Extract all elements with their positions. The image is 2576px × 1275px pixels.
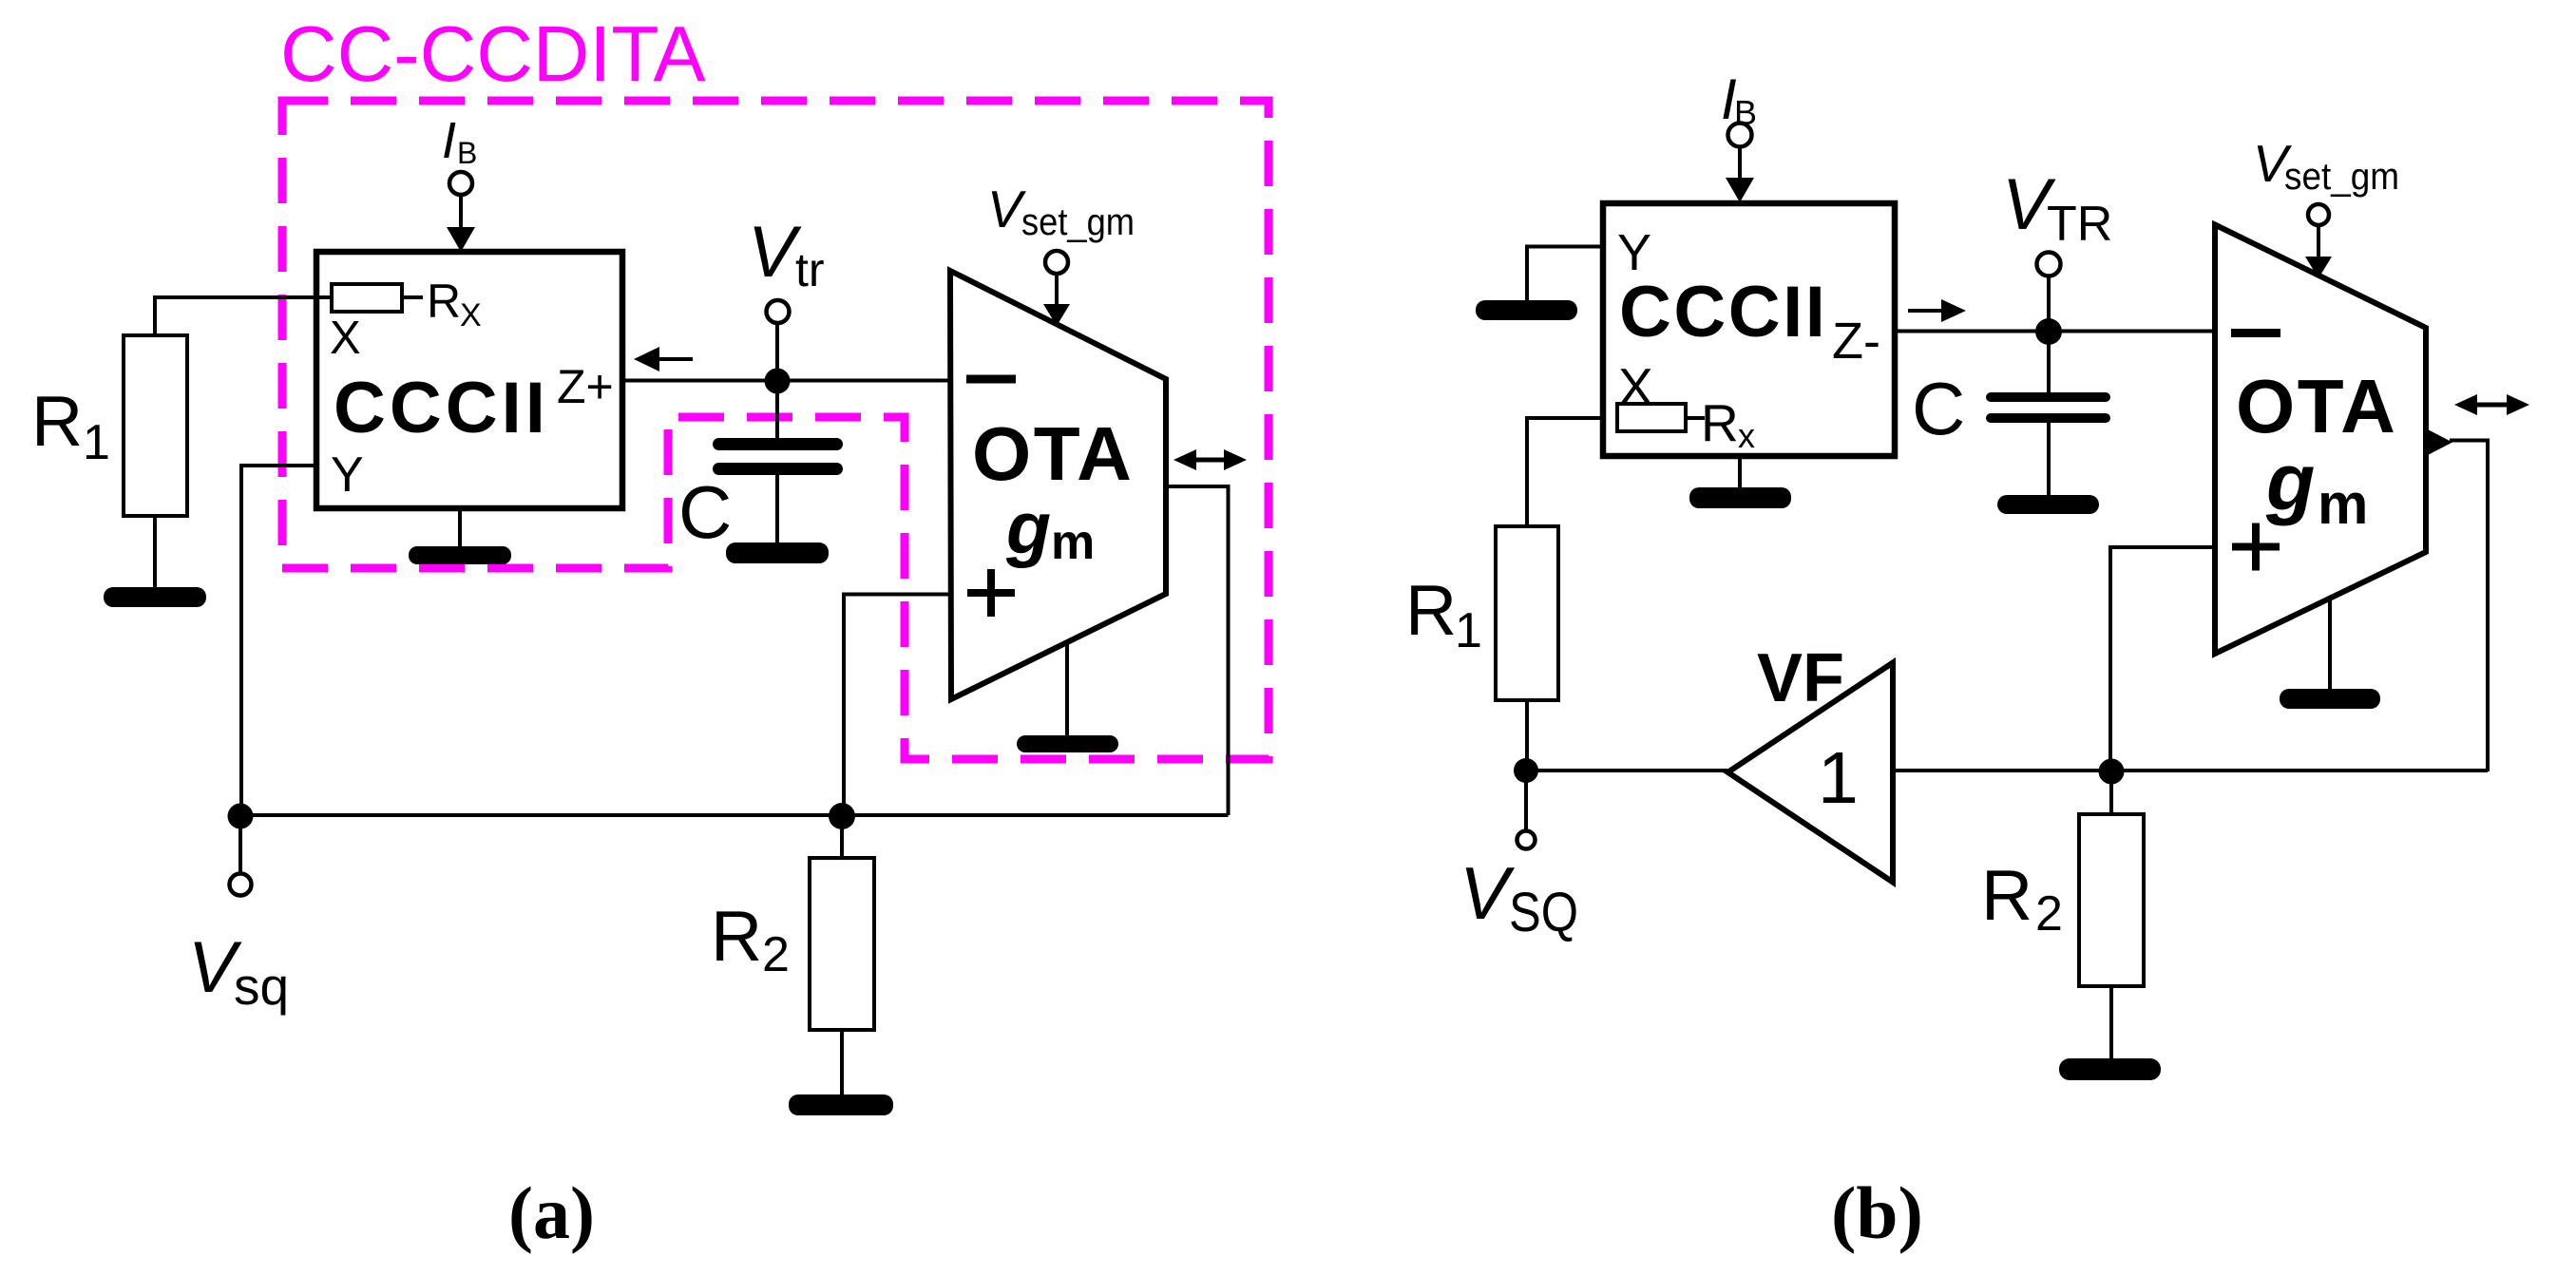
svg-text:R: R [1701,393,1739,452]
ground OTA b [2328,597,2332,691]
svg-text:R: R [711,896,762,976]
svg-text:m: m [1051,515,1095,570]
OTA minus input [966,375,1016,384]
node R2 b [2099,759,2125,785]
wire R1 b to node [1525,700,1529,771]
wire X input: R1 top to Rx [155,297,333,337]
svg-text:Y: Y [331,447,364,503]
svg-text:set_gm: set_gm [1021,201,1135,243]
resistor R2 [840,816,844,858]
OTA plus input [967,589,1015,597]
ground C [726,542,829,563]
terminal Vtr [775,323,779,381]
ground CCCII [458,508,462,548]
svg-text:V: V [987,180,1026,238]
svg-text:CC-CCDITA: CC-CCDITA [280,10,706,98]
svg-text:2: 2 [2035,886,2063,942]
svg-text:SQ: SQ [1509,882,1578,943]
terminal VTR b [2047,276,2051,332]
wire OTA plus input [844,595,950,816]
resistor Rx b [1617,404,1686,431]
ground Y b [1476,300,1577,320]
OTA bidirectional output arrow [1190,458,1231,463]
svg-text:V: V [1460,851,1516,935]
arrow on Z+ wire [656,357,693,361]
resistor Rx [332,284,402,312]
node R2 [829,803,855,829]
ground R2 [789,1094,893,1115]
svg-text:R: R [31,381,83,461]
node Vsq [228,804,254,829]
svg-text:X: X [460,297,482,333]
terminal VSQ b [1524,771,1528,830]
node VSQ b [1514,758,1538,783]
svg-text:g: g [2265,437,2315,526]
svg-text:C: C [1912,367,1965,450]
svg-text:tr: tr [795,243,825,296]
svg-text:X: X [1618,357,1653,416]
resistor R2 b [2109,771,2113,814]
OTA b minus input [2231,329,2280,337]
terminal Vset_gm b [2308,204,2329,225]
svg-text:OTA: OTA [2236,364,2397,448]
CC-CCDITA dashed boundary [282,101,1269,759]
terminal IB b [1728,124,1752,147]
svg-text:B: B [457,136,477,170]
svg-text:Z-: Z- [1832,313,1880,370]
wire OTA output [1166,486,1229,815]
wire Z- b [1895,330,2215,333]
wire OTA b output [2450,441,2488,772]
terminal Vsq [239,816,242,874]
svg-text:(a): (a) [508,1171,595,1254]
capacitor C [775,381,779,439]
wire X b [1527,418,1603,528]
wire Y b [1527,247,1603,303]
svg-text:R: R [1405,570,1457,650]
node Vtr junction [765,369,791,394]
wire IB arrow [459,195,463,230]
node VTR b [2035,318,2062,345]
svg-text:CCCII: CCCII [334,368,549,448]
terminal IB [449,172,472,195]
resistor R1 b [1496,526,1558,700]
svg-text:C: C [678,470,732,554]
ground R2 b [2059,1058,2161,1080]
terminal Vset_gm [1045,251,1068,274]
capacitor C b [2047,332,2051,393]
svg-text:1: 1 [1818,737,1859,819]
wire VF input from feedback node [1893,769,2488,772]
op-amp OTA U4 b [2215,225,2426,655]
svg-text:x: x [1738,416,1755,455]
svg-text:1: 1 [1455,603,1482,658]
svg-text:X: X [330,313,361,364]
svg-text:Z+: Z+ [557,360,614,413]
wire OTA b plus input [2110,547,2215,771]
resistor R1 [124,335,187,516]
svg-text:TR: TR [2047,197,2112,252]
svg-text:set_gm: set_gm [2284,156,2399,198]
ground CCCII b [1738,456,1742,489]
bottom feedback wire [240,813,1229,817]
wire Z+ to OTA [623,379,950,383]
svg-text:VF: VF [1757,640,1844,716]
svg-text:I: I [442,112,456,169]
svg-text:2: 2 [762,927,790,982]
wire R1 to ground [153,516,157,591]
svg-text:1: 1 [83,415,110,470]
arrow on Z- wire b [1908,309,1945,313]
svg-text:g: g [1005,487,1051,569]
svg-text:m: m [2318,472,2368,536]
OTA b bidirectional arrow [2471,403,2513,408]
op-amp OTA U2 [950,271,1166,699]
wire VF output to VSQ node [1526,769,1727,772]
ground R1 [104,587,206,607]
svg-text:(b): (b) [1831,1171,1923,1254]
svg-text:R: R [1981,855,2032,935]
svg-text:V: V [748,212,802,293]
OTA b plus input [2232,543,2280,551]
ground OTA [1065,640,1069,737]
op-amp block CCCII U1 [316,252,622,508]
svg-text:CCCII: CCCII [1619,272,1827,352]
ground C b [1997,495,2099,514]
svg-text:OTA: OTA [972,411,1134,496]
svg-text:sq: sq [234,957,289,1016]
block CCCII U3 [1603,203,1895,456]
svg-text:R: R [427,275,461,328]
OTA b output arrowhead [2426,428,2452,456]
wire Y input [241,466,316,815]
